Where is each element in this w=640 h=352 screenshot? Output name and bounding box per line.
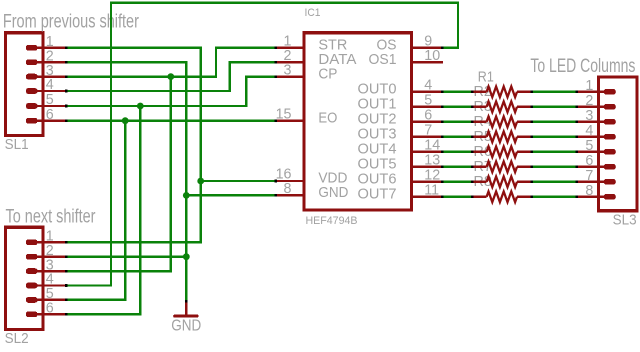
svg-text:IC1: IC1 [305,7,321,19]
svg-text:To next shifter: To next shifter [6,205,96,227]
svg-text:From previous shifter: From previous shifter [3,10,139,32]
svg-text:OUT6: OUT6 [358,172,397,188]
resistor R1 element 8 [471,192,533,203]
svg-text:GND: GND [318,185,348,201]
svg-text:13: 13 [424,153,440,169]
svg-text:8: 8 [585,183,593,199]
resistor R1 element 4 [471,132,533,143]
wire resistor to SL3 pin 4 [533,136,575,138]
wire OUT3 to resistor [444,136,471,138]
wire resistor to SL3 pin 6 [533,166,575,168]
wire resistor to SL3 pin 2 [533,106,575,108]
IC right pin stubs [412,47,444,199]
IC left pin stubs [275,47,304,197]
IC left pin names [318,38,356,202]
svg-text:5: 5 [46,92,54,108]
junction GND at IC pin8 [183,192,190,199]
wire resistor to SL3 pin 1 [533,91,575,93]
svg-text:6: 6 [46,107,54,123]
IC right pin numbers [424,34,440,199]
SL3 pin numbers 1-8 [585,78,593,199]
svg-text:5: 5 [585,138,593,154]
IC U1 HEF4794B box [304,33,412,210]
svg-text:4: 4 [424,78,432,94]
IC left pin numbers [276,34,292,198]
IC right pin names [358,38,397,203]
SL2 pin numbers 1-6 [46,229,54,317]
svg-text:11: 11 [424,183,439,199]
wire resistor to SL3 pin 8 [533,196,575,198]
wire OUT1 to resistor [444,106,471,108]
wire resistor to SL3 pin 3 [533,121,575,123]
wire OUT6 to resistor [444,181,471,183]
svg-text:OUT5: OUT5 [358,157,397,173]
wire OUT7 to resistor [444,196,471,198]
svg-text:HEF4794B: HEF4794B [306,215,358,227]
resistor R1 element 1 [471,87,533,98]
svg-text:5: 5 [424,93,432,109]
junction CP branch [137,103,144,110]
connector SL2 [6,227,68,329]
wire to ground [185,257,187,301]
resistor R1 element 3 [471,117,533,128]
svg-text:15: 15 [276,106,292,122]
wire OUT2 to resistor [444,121,471,123]
svg-text:OUT4: OUT4 [358,142,397,158]
junction VDD at IC pin16 [197,178,204,185]
wire CP from SL1 pin5 [68,75,275,315]
svg-text:SL3: SL3 [613,212,637,228]
SL1 pin numbers 1-6 [46,34,54,123]
wire DATA from SL1 pin4 [68,61,275,92]
svg-text:3: 3 [284,62,292,78]
wire VDD from SL1 pin1 [68,47,275,244]
svg-text:8: 8 [284,181,292,197]
wire STR from SL1 pin3 [68,47,275,273]
junction GND at SL2 pin2 [183,253,190,260]
svg-text:2: 2 [585,93,593,109]
svg-text:OUT0: OUT0 [358,82,397,98]
wire resistor to SL3 pin 5 [533,151,575,153]
svg-text:4: 4 [46,77,54,93]
wire EO from SL1 pin6 [68,120,275,302]
svg-text:SL2: SL2 [5,331,29,347]
svg-text:14: 14 [424,138,440,154]
svg-text:10: 10 [424,48,440,64]
svg-text:OS1: OS1 [369,52,397,68]
junction EO branch [122,117,129,124]
wire GND net from SL1 pin2 [68,61,275,258]
svg-text:R1: R1 [478,69,494,85]
svg-text:1: 1 [585,78,593,94]
svg-text:To LED Columns: To LED Columns [530,55,635,77]
resistor R1 element 6 [471,162,533,173]
connector SL1 [6,33,68,136]
svg-text:CP: CP [318,66,337,82]
svg-text:6: 6 [585,153,593,169]
wire OS to SL2 pin4 via top [68,1,460,286]
wire OUT0 to resistor [444,91,471,93]
svg-text:3: 3 [585,108,593,124]
svg-text:6: 6 [46,301,54,317]
svg-text:OUT7: OUT7 [358,187,397,203]
svg-text:7: 7 [424,123,432,139]
resistor R1 element 7 [471,177,533,188]
resistor R1 element 5 [471,147,533,158]
svg-text:7: 7 [585,168,593,184]
svg-text:6: 6 [424,108,432,124]
svg-text:OUT2: OUT2 [358,112,397,128]
svg-text:EO: EO [318,110,337,126]
svg-text:OUT3: OUT3 [358,127,397,143]
wire resistor to SL3 pin 7 [533,181,575,183]
connector SL3 [575,77,637,211]
ground [173,300,198,318]
wire OUT5 to resistor [444,166,471,168]
junction STR branch [167,73,174,80]
svg-text:GND: GND [171,318,201,335]
resistor R1 element 2 [471,102,533,113]
svg-text:SL1: SL1 [5,137,29,153]
svg-text:OUT1: OUT1 [358,97,397,113]
svg-text:4: 4 [585,123,593,139]
wire OUT4 to resistor [444,151,471,153]
svg-text:12: 12 [424,168,440,184]
